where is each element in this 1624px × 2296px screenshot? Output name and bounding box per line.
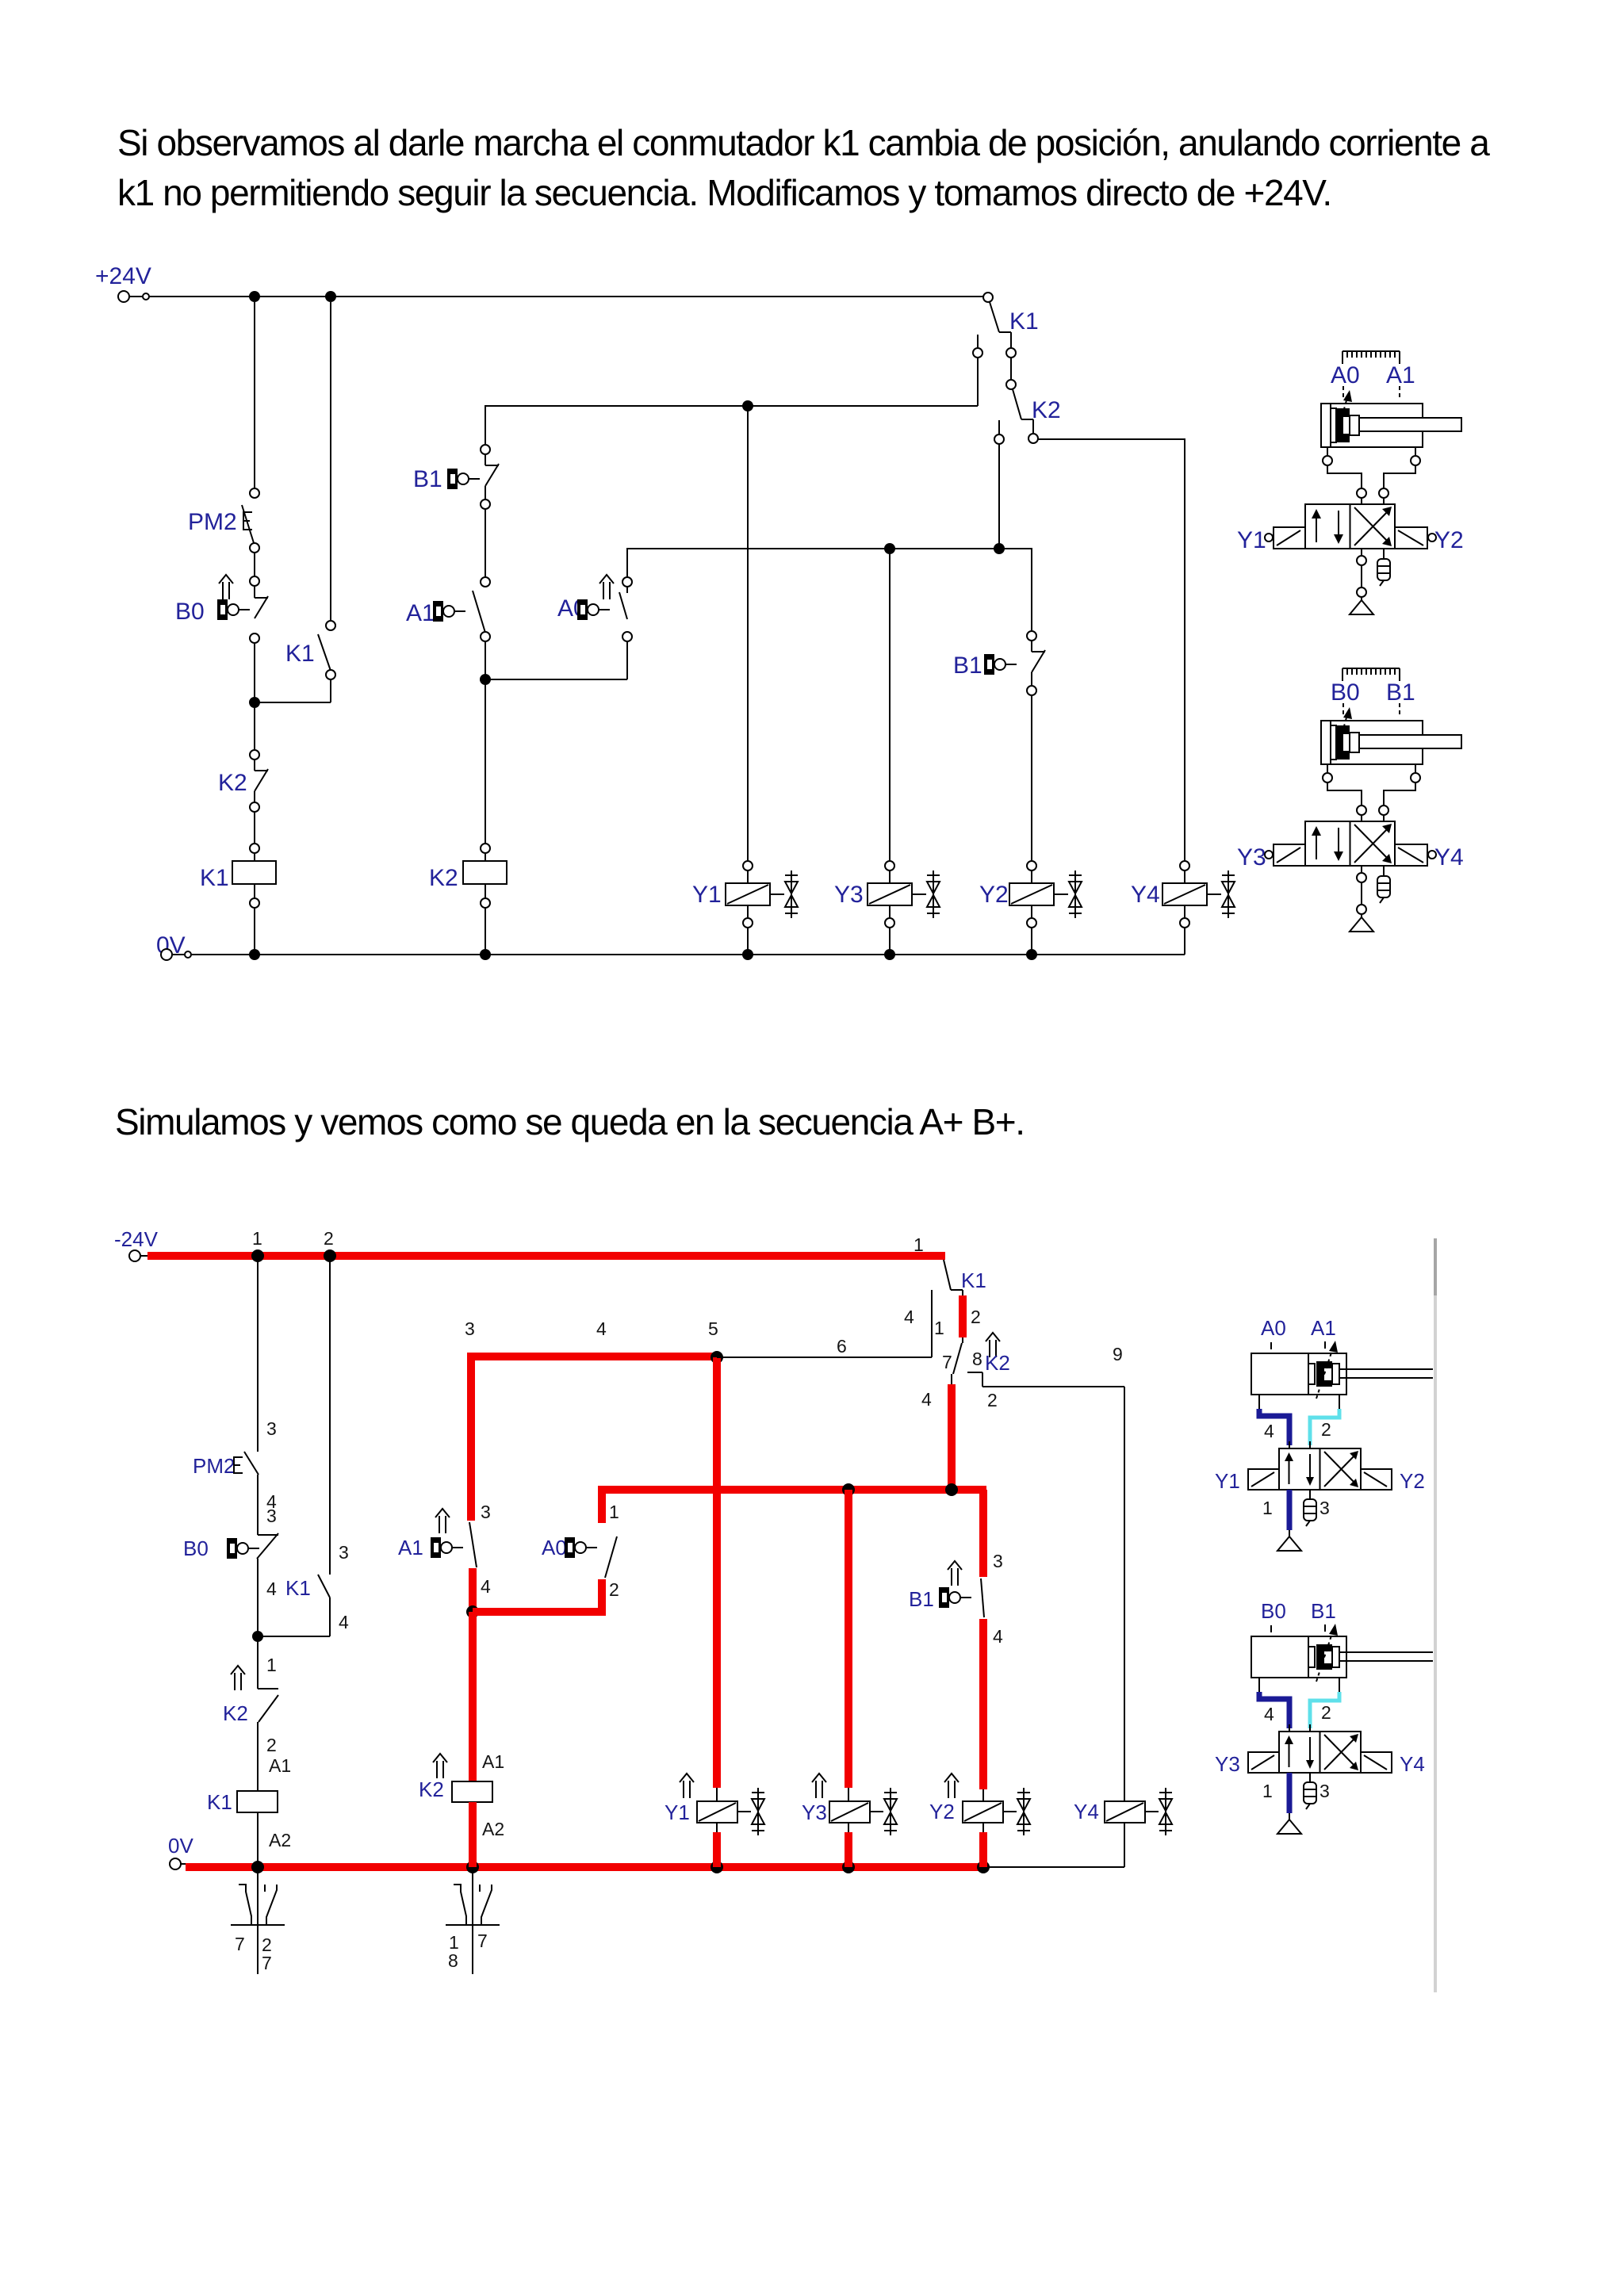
svg-text:4: 4 [1264, 1421, 1274, 1441]
node A1/A0 [466, 1605, 479, 1618]
wire junction-K2 [254, 702, 255, 750]
wire Y2/B1 branch corner [999, 549, 1032, 631]
svg-text:Y2: Y2 [1400, 1469, 1425, 1493]
svg-text:2: 2 [324, 1228, 334, 1249]
node rail-branch2 [324, 1249, 336, 1262]
exhaust line + silencer [1361, 549, 1362, 556]
svg-text:B1: B1 [1386, 679, 1415, 706]
svg-text:B0: B0 [1261, 1599, 1286, 1623]
svg-text:1: 1 [266, 1655, 277, 1675]
node 0V rail x=904 [710, 1861, 723, 1873]
svg-text:A1: A1 [1311, 1316, 1336, 1340]
svg-text:2: 2 [1321, 1702, 1331, 1723]
svg-text:-24V: -24V [114, 1227, 159, 1251]
svg-text:K1: K1 [285, 1576, 311, 1600]
limit switch A0 (NO, actuated) [599, 575, 614, 599]
wire B1-Y2 [1031, 695, 1032, 861]
node Y1 tap [742, 400, 753, 411]
wire K2 right pole to Y4 [1038, 439, 1185, 861]
svg-text:B0: B0 [183, 1536, 209, 1560]
pipe cylinder to valve [1327, 783, 1415, 806]
wire net from K1 left pole to B1 column [485, 406, 978, 445]
valve Y3/Y4 (5/2 solenoid) [1274, 821, 1427, 866]
contact cross-reference table K2 [446, 1873, 500, 1974]
svg-text:Y1: Y1 [1215, 1469, 1240, 1493]
svg-text:K2: K2 [1032, 397, 1061, 423]
node rail-branch2 [325, 291, 336, 302]
svg-text:A0: A0 [1331, 362, 1360, 388]
svg-text:Y3: Y3 [802, 1800, 827, 1824]
svg-text:1: 1 [609, 1502, 619, 1522]
wire +24V top rail [149, 296, 983, 297]
node Y3 tap [884, 543, 895, 554]
node K2 left pole [994, 543, 1005, 554]
valve Y1/Y2 (5/2 solenoid) [1274, 504, 1427, 549]
svg-text:Y2: Y2 [979, 882, 1009, 908]
svg-text:4: 4 [993, 1626, 1003, 1647]
svg-text:A1: A1 [482, 1751, 504, 1772]
svg-text:Y3: Y3 [834, 882, 864, 908]
node 0V rail x=1070 [842, 1861, 855, 1873]
svg-text:2: 2 [609, 1579, 619, 1600]
wire PM2-B0 [254, 553, 255, 576]
node Y1 tap [710, 1351, 723, 1364]
svg-text:Y1: Y1 [1237, 527, 1266, 553]
svg-text:B0: B0 [1331, 679, 1360, 706]
svg-text:B1: B1 [909, 1587, 934, 1611]
svg-text:2: 2 [987, 1390, 998, 1410]
svg-text:Y4: Y4 [1131, 882, 1160, 908]
svg-text:A1: A1 [1386, 362, 1415, 388]
svg-text:B1: B1 [413, 466, 442, 492]
svg-text:1: 1 [1262, 1498, 1273, 1518]
valve Y3/Y4 (5/2 solenoid) [1248, 1732, 1392, 1773]
wire K2-coil column (energized) [469, 1612, 477, 1781]
solenoid Y3 (energized) [812, 1774, 826, 1798]
svg-text:Y1: Y1 [692, 882, 722, 908]
svg-text:K2: K2 [985, 1351, 1010, 1375]
svg-text:3: 3 [1319, 1781, 1330, 1801]
limit switch A1 (NO closed, actuated) [435, 1509, 450, 1533]
svg-text:7: 7 [262, 1953, 272, 1973]
ruler scale A0/A1 [1342, 351, 1400, 364]
svg-text:PM2: PM2 [193, 1454, 235, 1478]
wire Y3 drop [889, 549, 891, 861]
node A1/A0 junction [480, 674, 491, 685]
node K2 left pole [945, 1483, 958, 1496]
svg-text:Y4: Y4 [1434, 844, 1464, 871]
svg-text:1: 1 [252, 1228, 262, 1249]
svg-text:K2: K2 [429, 865, 458, 891]
node 0V rail x=325 [251, 1861, 264, 1873]
cylinder A (retracted) [1321, 404, 1461, 447]
svg-text:2: 2 [266, 1735, 277, 1755]
svg-text:K2: K2 [419, 1777, 444, 1801]
svg-text:3: 3 [266, 1506, 277, 1526]
wire link to A0 [473, 1579, 602, 1612]
svg-text:Y3: Y3 [1215, 1752, 1240, 1776]
wire B1 corner (energized) [979, 1490, 987, 1577]
changeover contact K2 (energized) [986, 1333, 1000, 1357]
node 0V rail x=1301 [1026, 949, 1037, 960]
svg-text:4: 4 [1264, 1704, 1274, 1724]
valve Y1/Y2 (5/2 solenoid) [1248, 1448, 1392, 1490]
svg-text:A1: A1 [406, 600, 435, 626]
wire Y3 drop (energized) [845, 1490, 852, 1788]
wire B1-A1 [485, 509, 486, 577]
svg-text:Y4: Y4 [1074, 1800, 1099, 1823]
node 0V rail x=596 [466, 1861, 479, 1873]
pipe work lines [1259, 1395, 1339, 1409]
paragraph 2 [115, 1097, 1025, 1147]
svg-text:4: 4 [481, 1576, 491, 1597]
wire A0 top stub (energized) [602, 1490, 986, 1523]
svg-text:Y2: Y2 [929, 1800, 955, 1823]
pipe cylinder to valve [1327, 465, 1415, 488]
cylinder A (extended) [1251, 1353, 1433, 1395]
svg-text:Y1: Y1 [665, 1800, 690, 1824]
svg-text:A1: A1 [269, 1755, 291, 1776]
wire -24V rail (energized) [147, 1252, 945, 1260]
wire A0-junction [485, 641, 627, 679]
svg-text:K1: K1 [961, 1269, 986, 1292]
svg-text:3: 3 [1319, 1498, 1330, 1518]
svg-text:0V: 0V [168, 1834, 193, 1858]
svg-text:A2: A2 [482, 1819, 504, 1839]
svg-text:K2: K2 [218, 770, 247, 796]
svg-text:+24V: +24V [95, 263, 151, 289]
svg-text:1: 1 [913, 1234, 924, 1255]
svg-text:8: 8 [448, 1950, 458, 1971]
svg-text:A0: A0 [542, 1536, 567, 1559]
svg-text:B1: B1 [953, 652, 982, 679]
wire net y692 from K2 left pole to A0 [627, 549, 999, 577]
cylinder B (retracted) [1321, 721, 1461, 764]
svg-text:3: 3 [266, 1418, 277, 1439]
contact cross-reference table K1 [231, 1873, 285, 1974]
wire segment 6 [717, 1357, 932, 1358]
wire coilK2-0V [485, 853, 486, 955]
svg-text:PM2: PM2 [188, 509, 237, 535]
svg-text:7: 7 [477, 1931, 488, 1951]
solenoid Y1 (energized) [680, 1774, 694, 1798]
svg-text:A2: A2 [269, 1830, 291, 1850]
wire A1-junction [485, 641, 486, 679]
node branch1-K1contact [249, 697, 260, 708]
exhaust line + silencer [1361, 866, 1362, 873]
wire Y1 drop [747, 406, 749, 861]
svg-text:9: 9 [1113, 1344, 1123, 1364]
svg-text:K1: K1 [285, 641, 315, 667]
wire branch1 [257, 1260, 259, 1452]
svg-text:Y2: Y2 [1434, 527, 1464, 553]
node 0V rail x=1240 [977, 1861, 990, 1873]
node 0V rail x=943 [742, 949, 753, 960]
wire B0-junction [254, 643, 255, 702]
svg-text:A0: A0 [1261, 1316, 1286, 1340]
node Y3 tap [842, 1483, 855, 1496]
svg-text:2: 2 [971, 1307, 981, 1327]
svg-text:K2: K2 [223, 1701, 248, 1725]
limit switch B0 (NC, actuated) [219, 575, 233, 599]
svg-text:4: 4 [266, 1578, 277, 1599]
svg-text:3: 3 [481, 1502, 491, 1522]
svg-text:3: 3 [993, 1551, 1003, 1571]
svg-text:Y3: Y3 [1237, 844, 1266, 871]
node 0V rail x=321 [249, 949, 260, 960]
svg-text:7: 7 [235, 1934, 245, 1954]
node rail-branch1 [249, 291, 260, 302]
node 0V rail x=1122 [884, 949, 895, 960]
svg-text:6: 6 [837, 1336, 847, 1357]
svg-text:4: 4 [596, 1318, 607, 1339]
cylinder B (extended) [1251, 1636, 1433, 1678]
svg-text:1: 1 [1262, 1781, 1273, 1801]
relay coil K2 (energized) [433, 1754, 447, 1778]
svg-text:K1: K1 [1009, 308, 1039, 335]
svg-text:7: 7 [942, 1352, 952, 1372]
svg-text:B1: B1 [1311, 1599, 1336, 1623]
ruler scale B0/B1 [1342, 668, 1400, 681]
svg-text:B0: B0 [175, 599, 205, 625]
svg-text:4: 4 [339, 1612, 349, 1632]
svg-text:Y4: Y4 [1400, 1752, 1425, 1776]
wire B1-Y2 (energized) [979, 1619, 987, 1789]
wire coilK1-0V [254, 853, 255, 955]
wire branch1 top [254, 302, 255, 488]
wire A1 lower (energized) [469, 1568, 477, 1612]
svg-text:4: 4 [904, 1307, 914, 1327]
wire 0V rail black segment to Y4 [990, 1866, 1124, 1868]
svg-text:2: 2 [1321, 1419, 1331, 1440]
contact K2 (NC, energized open) [231, 1666, 245, 1690]
svg-text:1: 1 [934, 1318, 944, 1338]
wire red bus 3-4-5 [471, 1357, 717, 1360]
wire A1 column upper (energized) [467, 1357, 475, 1521]
wire 0V bottom rail [191, 954, 1185, 955]
wire K2-coilK1 [254, 812, 255, 844]
svg-text:8: 8 [972, 1349, 982, 1369]
node 0V rail x=612 [480, 949, 491, 960]
wire Y1 drop (energized) [713, 1357, 721, 1788]
svg-text:4: 4 [921, 1389, 932, 1410]
svg-text:K1: K1 [200, 865, 229, 891]
svg-text:3: 3 [465, 1318, 475, 1339]
svg-text:5: 5 [708, 1318, 718, 1339]
wire junction-coilK2 [485, 679, 486, 844]
svg-text:3: 3 [339, 1542, 349, 1563]
svg-text:K1: K1 [207, 1790, 232, 1814]
window scrollbar edge [1434, 1238, 1437, 1992]
paragraph 1 [117, 118, 1488, 218]
wire 0V rail (energized) [186, 1863, 983, 1871]
svg-text:A1: A1 [398, 1536, 423, 1559]
pipe work lines [1259, 1678, 1339, 1692]
solenoid Y2 (energized) [944, 1774, 959, 1798]
limit switch B1 (NO closed, actuated) [948, 1561, 962, 1586]
node rail-branch1 [251, 1249, 264, 1262]
node branch1 junction [252, 1631, 263, 1642]
